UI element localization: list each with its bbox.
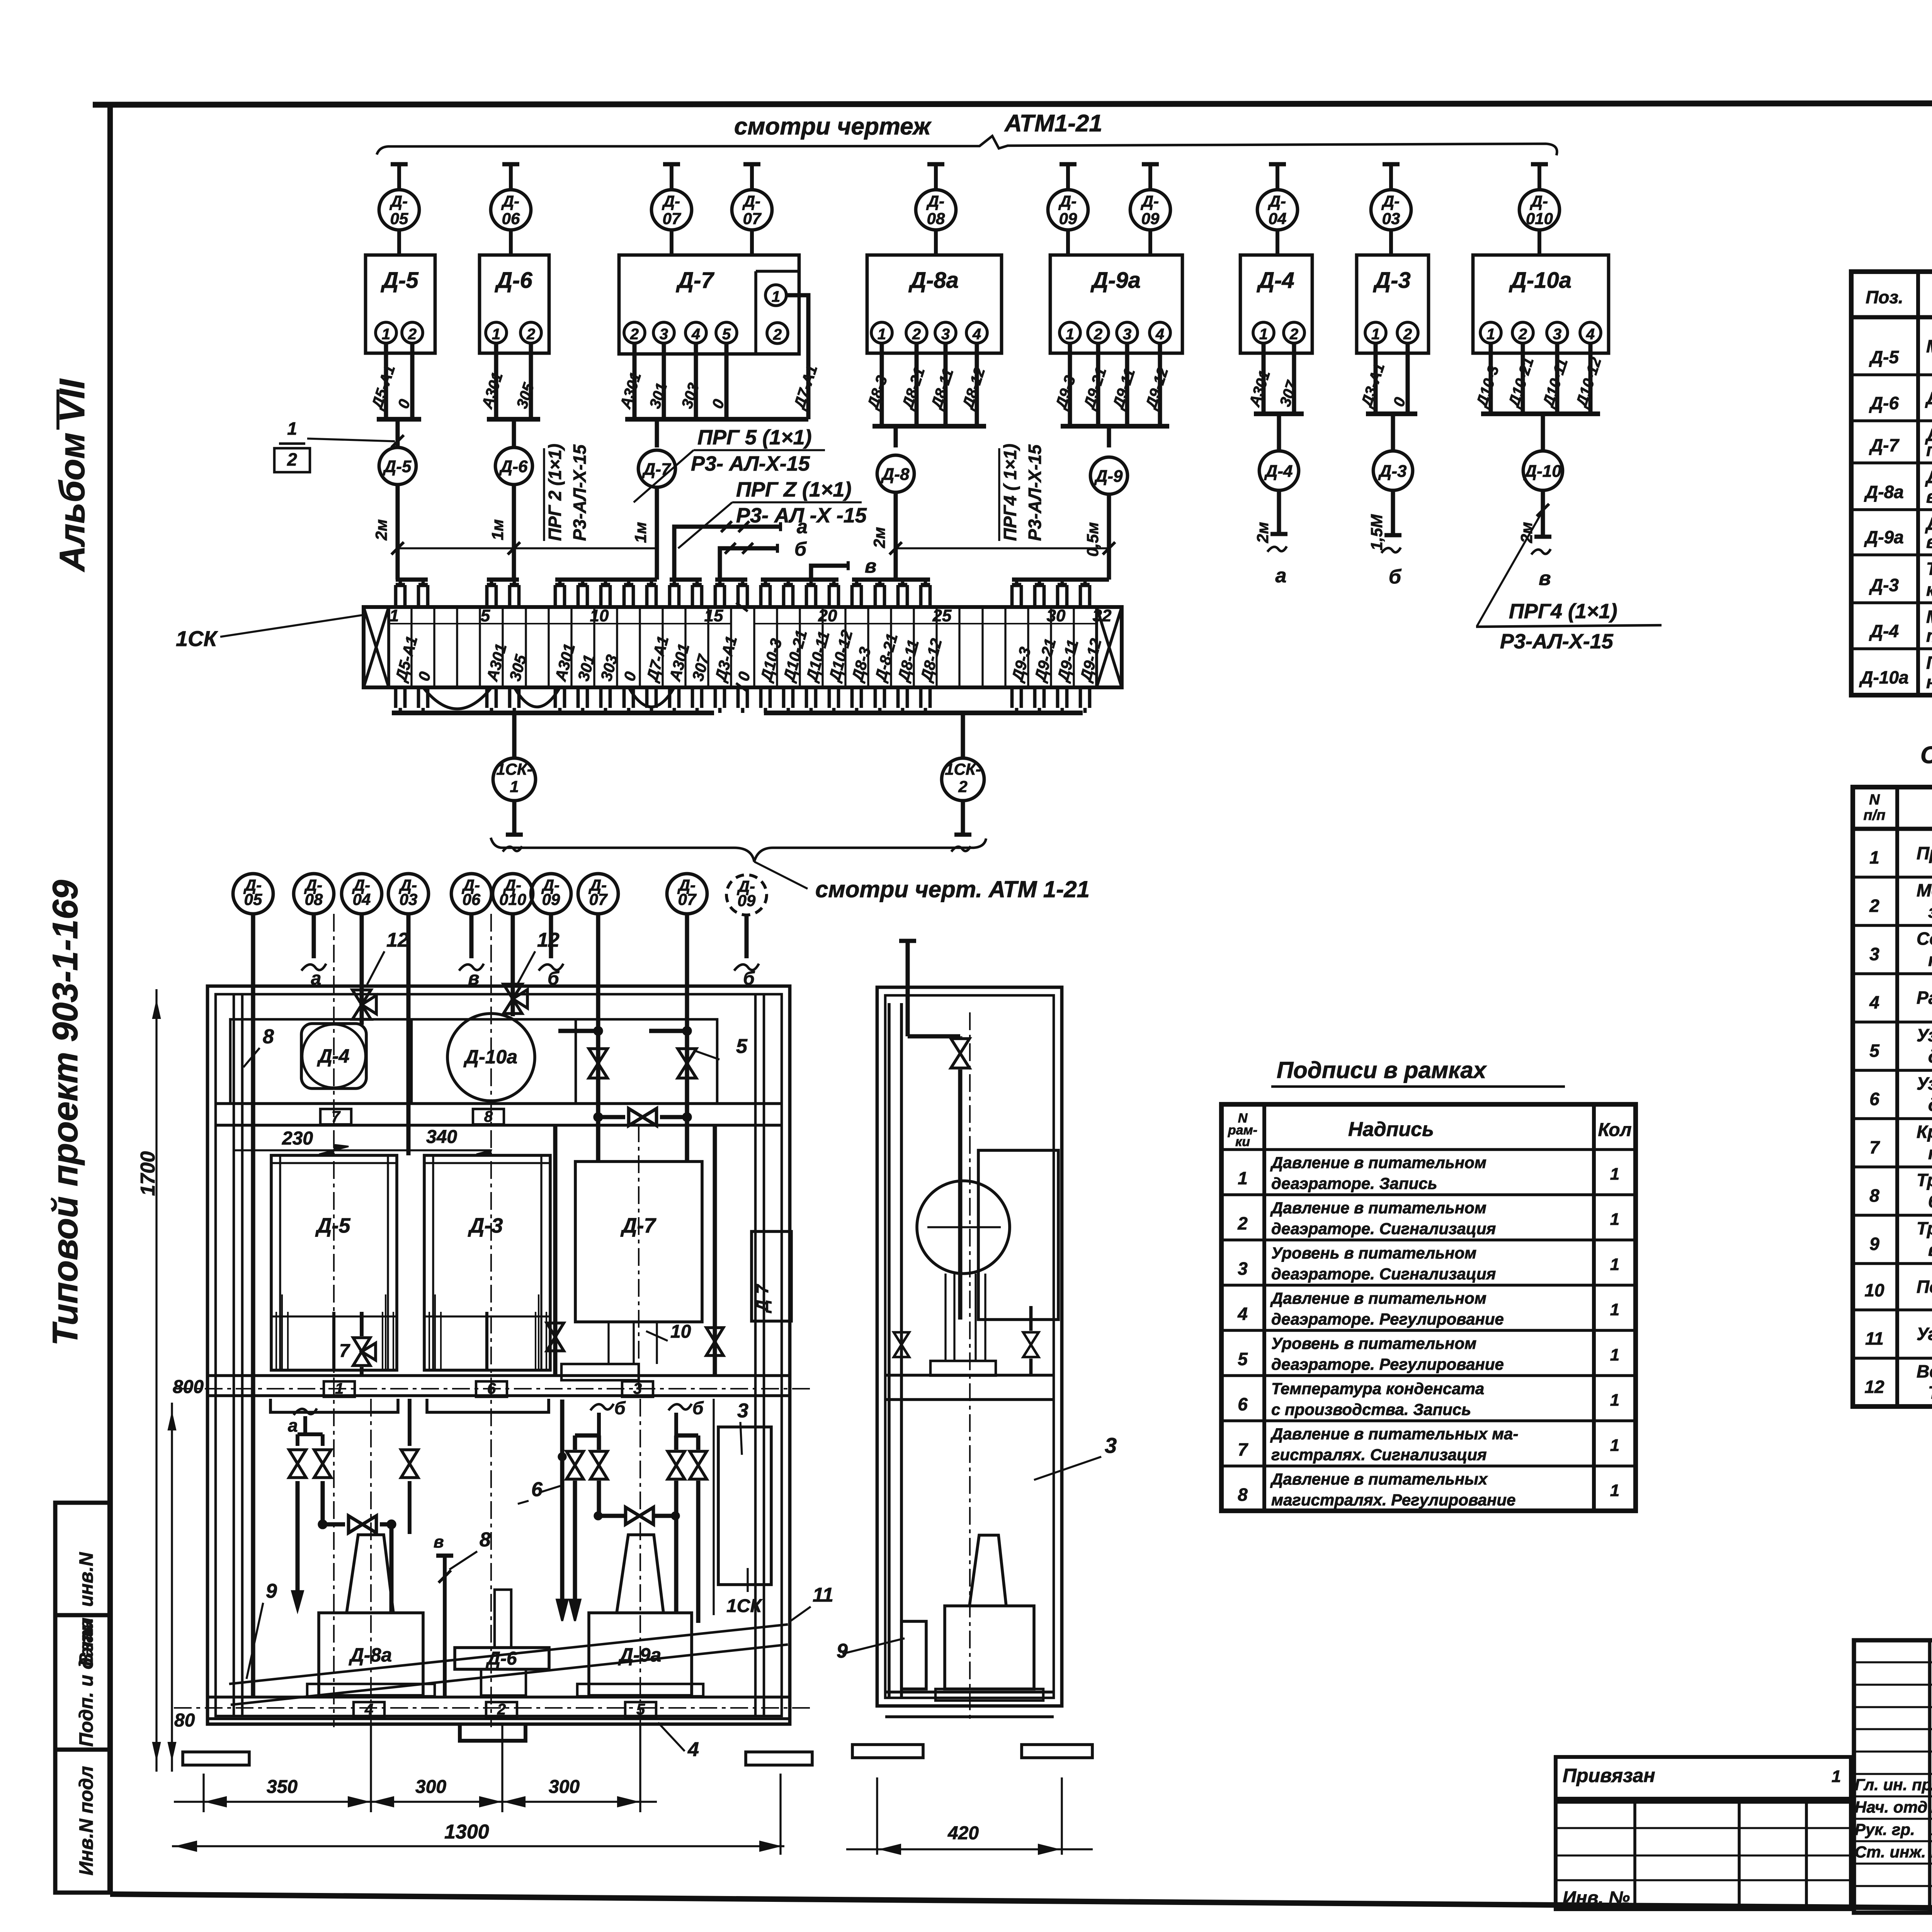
svg-text:Д-6: Д-6 (485, 1648, 517, 1669)
pipe to Д-8а with arrow (296, 1481, 300, 1592)
svg-text:Металлорукав: Металлорукав (1917, 880, 1932, 900)
wire (1158, 343, 1162, 426)
plate 7 (320, 1109, 351, 1124)
comb bar (852, 578, 930, 582)
side view pipe bundle under gauge (944, 1274, 946, 1361)
svg-text:ПРГ4 (1×1): ПРГ4 (1×1) (1509, 600, 1617, 623)
svg-text:Д-9а: Д-9а (1864, 527, 1904, 547)
svg-text:11: 11 (1865, 1328, 1884, 1349)
right lower group stub б 2 (668, 1404, 692, 1410)
svg-text:деаэраторе. Сигнализация: деаэраторе. Сигнализация (1271, 1219, 1496, 1238)
Д-10а terminal 3 (1547, 322, 1568, 343)
strip hook (896, 585, 900, 607)
svg-text:7: 7 (339, 1341, 350, 1361)
svg-text:3: 3 (660, 326, 668, 343)
svg-text:ния (манометр): ния (манометр) (1926, 672, 1932, 692)
svg-text:деаэраторе. Сигнализация: деаэраторе. Сигнализация (1271, 1265, 1496, 1283)
wire Д-06 stub в (469, 914, 474, 958)
Д-7 terminal 2 (624, 322, 645, 343)
svg-text:Манометр самопищущий: Манометр самопищущий (1926, 336, 1932, 356)
device Д-4 front (301, 1024, 366, 1088)
centerline Д-8а column (370, 1399, 372, 1723)
Д-7 terminal 3 (653, 322, 674, 343)
valve on pipe 1 (589, 1049, 607, 1063)
Д-8а trapezoid (347, 1535, 393, 1613)
side small box 9 (901, 1621, 926, 1689)
strip hook (577, 585, 580, 607)
Д-8а terminal 3 (935, 322, 956, 343)
strip hook (828, 585, 831, 607)
wire Д-09 stub б (549, 914, 553, 958)
svg-text:Р3-АЛ-Х-15: Р3-АЛ-Х-15 (570, 444, 590, 541)
svg-text:Д-7: Д-7 (642, 460, 672, 479)
svg-text:12: 12 (386, 929, 409, 951)
sensor circle Д-05 (top row) (397, 164, 401, 190)
svg-text:Преобразователь давле-: Преобразователь давле- (1926, 653, 1932, 673)
svg-text:2: 2 (1403, 326, 1412, 343)
svg-text:Д-10а: Д-10а (1509, 268, 1571, 293)
strip hook (691, 585, 694, 607)
svg-text:Уголок: Уголок (1917, 1324, 1932, 1344)
sensor circle Д-09 (top row) (1066, 164, 1070, 190)
svg-text:Давление в питательном: Давление в питательном (1270, 1199, 1486, 1217)
strip right X box (1097, 607, 1122, 687)
привязан box (1556, 1757, 1851, 1799)
svg-text:а: а (288, 1415, 298, 1435)
svg-text:Д-: Д- (389, 192, 408, 210)
pipe 1807 down (696, 1481, 701, 1623)
Д-4 terminal 2 (1284, 322, 1304, 343)
thin pipe 1847 (713, 1399, 714, 1615)
Д-7 inner sub-box (754, 271, 757, 354)
cable circle Д-9 (1090, 457, 1128, 494)
box Д-5 streak lines (271, 1315, 397, 1317)
svg-text:6: 6 (1238, 1394, 1248, 1414)
svg-text:Д-10а: Д-10а (1859, 667, 1908, 687)
svg-text:Д-: Д- (742, 192, 760, 210)
svg-text:Д-8а: Д-8а (1864, 482, 1904, 502)
sensor circle Д-04 (top row) (1276, 164, 1279, 190)
1СК side box (718, 1427, 771, 1585)
svg-text:11: 11 (813, 1584, 833, 1606)
svg-text:магистралях. Регулирование: магистралях. Регулирование (1271, 1491, 1516, 1509)
wire (1406, 343, 1410, 414)
svg-text:1: 1 (389, 606, 399, 625)
svg-text:ПРГ 2 (1×1): ПРГ 2 (1×1) (545, 444, 565, 541)
svg-text:9: 9 (1869, 1234, 1879, 1254)
svg-text:8: 8 (484, 1108, 493, 1125)
svg-text:1,5М: 1,5М (1367, 514, 1386, 550)
wire from sensor circle to box (1389, 230, 1393, 256)
device Д-10а front (447, 1014, 535, 1101)
svg-text:Рамка для надписи: Рамка для надписи (1917, 988, 1932, 1008)
инв table (1556, 1802, 1851, 1909)
svg-text:2: 2 (773, 326, 782, 343)
svg-text:Д-: Д- (662, 192, 680, 210)
cable to 1СК-2 (961, 713, 965, 758)
Д-9а terminal 3 (1117, 322, 1138, 343)
svg-text:Д-10а: Д-10а (463, 1046, 517, 1068)
svg-text:2: 2 (1094, 326, 1102, 343)
wire (1096, 343, 1100, 426)
svg-text:4: 4 (972, 326, 981, 343)
centerline Д-10а column (490, 914, 492, 1727)
Д-5 terminal 2 (402, 322, 423, 343)
svg-text:04: 04 (353, 890, 371, 908)
svg-text:1: 1 (1610, 1345, 1619, 1364)
Д-6 terminal 2 (520, 322, 541, 343)
svg-text:Д-7: Д-7 (1869, 435, 1900, 455)
Д-9а trapezoid (617, 1535, 663, 1613)
svg-text:07: 07 (743, 209, 762, 228)
svg-text:08: 08 (305, 890, 323, 908)
svg-text:трехходовой: трехходовой (1928, 1143, 1932, 1163)
pipe 1750 to Д-9а (674, 1481, 679, 1613)
cable to strip (894, 492, 898, 580)
svg-text:09: 09 (542, 890, 560, 908)
svg-text:Д-4: Д-4 (1264, 462, 1293, 481)
svg-text:10: 10 (590, 606, 609, 625)
svg-text:АТМ1-21: АТМ1-21 (1004, 110, 1102, 137)
svg-text:дифманометра: дифманометра (1928, 1046, 1932, 1066)
svg-text:Провод гибкий: Провод гибкий (1917, 843, 1932, 863)
wire (1292, 343, 1296, 414)
cable down (512, 419, 516, 447)
svg-text:2: 2 (912, 326, 921, 343)
svg-text:1: 1 (1610, 1165, 1619, 1184)
left margin box Взам.инв.N (55, 1503, 110, 1615)
wire from Д-7 terminal 1 (786, 295, 808, 419)
svg-text:4: 4 (364, 1701, 373, 1718)
svg-text:Д-7: Д-7 (753, 1284, 772, 1313)
svg-text:Д-3: Д-3 (468, 1214, 503, 1237)
drawing frame left border (107, 103, 113, 1894)
bowtie valve at rail (629, 1109, 643, 1126)
pedestal plate under Д-7 (561, 1364, 639, 1380)
Д-6 pedestal (481, 1669, 526, 1696)
cable circle Д-10 (1541, 414, 1545, 451)
cable circle Д-4 (1277, 414, 1281, 451)
svg-text:2: 2 (287, 449, 297, 469)
svg-text:Д-4: Д-4 (1869, 621, 1899, 641)
svg-text:б: б (794, 538, 807, 560)
wire (1489, 343, 1493, 414)
svg-text:дифманометра: дифманометра (1928, 1095, 1932, 1115)
Д-7 terminal 2 (sub) (767, 323, 788, 344)
svg-text:Труба: Труба (1917, 1218, 1932, 1238)
svg-text:Р3-АЛ-Х-15: Р3-АЛ-Х-15 (1025, 444, 1045, 541)
svg-text:12: 12 (537, 929, 560, 951)
sensor circle Д-03 (top row) (1389, 164, 1393, 190)
side view gauge circle (917, 1181, 1010, 1274)
strip hook (714, 585, 717, 607)
Д-8а terminal 1 (871, 322, 892, 343)
instrument box Д-7 (619, 255, 799, 354)
svg-text:1300: 1300 (444, 1821, 489, 1843)
svg-text:2: 2 (497, 1701, 506, 1718)
instrument box Д-9а (1050, 255, 1182, 353)
wire bus (872, 424, 986, 429)
svg-text:2м: 2м (1253, 522, 1272, 543)
grouping line left with hashes (398, 547, 657, 549)
sensor circle Д-07 (front view) (578, 874, 618, 914)
svg-text:Д-6: Д-6 (494, 268, 532, 293)
pipe 1550 to bowtie (597, 1481, 601, 1516)
svg-text:1: 1 (772, 288, 780, 305)
wire (1555, 343, 1560, 414)
wire (915, 343, 919, 426)
Д-6 terminal 1 (486, 322, 507, 343)
svg-text:5: 5 (481, 606, 490, 625)
jumper arcs (423, 687, 492, 709)
svg-text:1: 1 (1610, 1391, 1619, 1410)
svg-text:ки: ки (1235, 1134, 1250, 1149)
left margin box Инв.N подл (55, 1750, 110, 1893)
svg-text:Д-: Д- (1058, 192, 1077, 210)
svg-text:10: 10 (1864, 1280, 1884, 1300)
sensor circle Д-03 (front view) (388, 874, 429, 914)
strip hook (417, 585, 420, 607)
wire from sensor circle to box (1066, 230, 1070, 256)
svg-text:Температура конденсата: Температура конденсата (1271, 1379, 1484, 1398)
pipe to bowtie left (321, 1481, 325, 1524)
wire (694, 343, 698, 419)
svg-text:Д-: Д- (1268, 192, 1286, 210)
svg-text:показывающий сигнализирующий: показывающий сигнализирующий (1926, 440, 1932, 460)
wire bus (1254, 412, 1304, 416)
svg-text:32: 32 (1093, 606, 1112, 625)
strip number band line (389, 623, 730, 624)
left grid rows (1854, 1661, 1932, 1663)
strip hook (782, 585, 786, 607)
wire from sensor circle to box (1537, 230, 1541, 256)
svg-text:04: 04 (1269, 209, 1287, 228)
Д-7 terminal 1 (765, 285, 786, 306)
side feet (852, 1745, 923, 1758)
hook below rail (460, 1724, 526, 1741)
svg-text:Д-5: Д-5 (383, 457, 412, 476)
cable down (396, 419, 400, 447)
svg-text:Инв.N подл: Инв.N подл (75, 1766, 97, 1875)
svg-text:б: б (692, 1398, 704, 1418)
svg-text:Уровень в питательном: Уровень в питательном (1271, 1334, 1476, 1352)
cable to 1СК-1 (512, 713, 516, 758)
svg-text:2: 2 (1237, 1213, 1248, 1233)
wire Д-07 second down (685, 914, 689, 1031)
svg-text:ПРГ 5 (1×1): ПРГ 5 (1×1) (697, 426, 812, 449)
svg-text:Д-8а: Д-8а (349, 1644, 392, 1666)
svg-text:Д-7: Д-7 (675, 268, 714, 293)
terminal strip 1СК (364, 607, 1122, 687)
side view valve right at rail (1023, 1332, 1039, 1345)
svg-text:08: 08 (927, 209, 945, 228)
brace смотри черт (491, 838, 986, 862)
svg-text:Поз.: Поз. (1866, 287, 1903, 307)
svg-text:2м: 2м (870, 527, 888, 548)
plate 2 (486, 1702, 517, 1718)
svg-text:гистралях. Сигнализация: гистралях. Сигнализация (1271, 1446, 1487, 1464)
side view small pedestal plate (930, 1361, 996, 1376)
svg-text:1м: 1м (488, 519, 507, 540)
wire (633, 343, 637, 419)
strip hook (508, 585, 512, 607)
svg-text:06: 06 (502, 209, 520, 228)
strip hook (1033, 585, 1037, 607)
svg-text:5: 5 (1238, 1349, 1248, 1369)
svg-text:1: 1 (1610, 1436, 1619, 1455)
svg-text:6: 6 (1869, 1089, 1879, 1109)
cable end (1391, 490, 1395, 535)
Д-3 terminal 1 (1365, 322, 1386, 343)
connector circle 1СК-2 (942, 758, 984, 801)
side view top wire (906, 941, 910, 995)
svg-text:1м: 1м (631, 522, 650, 543)
strip hook (805, 585, 808, 607)
centerline Д-9а column (639, 1399, 641, 1723)
wire (1521, 343, 1525, 414)
svg-text:80: 80 (174, 1710, 195, 1731)
svg-text:деаэраторе. Регулирование: деаэраторе. Регулирование (1271, 1355, 1504, 1373)
Д-10а terminal 1 (1480, 322, 1501, 343)
sensor circle Д-04 (front view) (342, 874, 382, 914)
svg-text:Рук. гр.: Рук. гр. (1855, 1820, 1915, 1838)
svg-text:800: 800 (173, 1377, 204, 1397)
centerline rail bottom (174, 1707, 811, 1709)
svg-text:кий самопищущий: кий самопищущий (1926, 580, 1932, 600)
right pipe with valve (713, 1125, 717, 1376)
strip hook (1056, 585, 1060, 607)
wire Д-08 stub a (312, 914, 316, 958)
svg-text:Д-: Д- (926, 192, 944, 210)
svg-text:3: 3 (633, 1380, 642, 1397)
svg-text:Р3- АЛ-Х-15: Р3- АЛ-Х-15 (691, 452, 810, 475)
svg-text:ПРГ4 ( 1×1): ПРГ4 ( 1×1) (1000, 444, 1020, 541)
svg-text:Подп. и дата: Подп. и дата (75, 1619, 97, 1747)
svg-text:тактный: тактный (1926, 626, 1932, 646)
svg-text:Ст. инж.: Ст. инж. (1855, 1843, 1926, 1861)
wire bus (1061, 424, 1169, 429)
svg-text:2: 2 (1869, 896, 1879, 916)
strip hook (736, 585, 740, 607)
mid pipe with valve (553, 1125, 558, 1376)
wire Д-07 down (596, 914, 600, 1031)
svg-text:2: 2 (1518, 326, 1527, 343)
box Д-5 front (271, 1155, 397, 1370)
wire (529, 343, 533, 419)
svg-text:Кол: Кол (1598, 1120, 1632, 1140)
three-way valve on Д-04 line (352, 990, 371, 1005)
sensor circle Д-07 (top row) (670, 164, 673, 190)
svg-text:5: 5 (722, 326, 731, 343)
svg-text:Д-3: Д-3 (1372, 268, 1410, 293)
svg-text:1: 1 (1610, 1255, 1619, 1274)
wire bus (487, 417, 540, 422)
instrument box Д-3 (1357, 255, 1429, 353)
cable circle Д-8 (877, 455, 914, 492)
svg-text:Подписи в рамках: Подписи в рамках (1277, 1057, 1487, 1083)
svg-text:1: 1 (1371, 326, 1380, 343)
svg-text:03: 03 (400, 890, 418, 908)
svg-text:6: 6 (531, 1478, 543, 1501)
wire Д-05 pipe long (251, 914, 255, 1697)
svg-text:Д-4: Д-4 (317, 1045, 350, 1067)
svg-text:Д-9: Д-9 (1094, 467, 1123, 486)
strip hook (394, 585, 398, 607)
svg-text:Д-5: Д-5 (1869, 347, 1900, 367)
svg-text:010: 010 (499, 890, 526, 908)
right lower group stub б 1 (590, 1404, 614, 1410)
side view heavy pipe elbow (906, 995, 910, 1036)
svg-text:07: 07 (663, 209, 681, 228)
svg-text:ПРГ Z (1×1): ПРГ Z (1×1) (736, 478, 852, 501)
cable down (655, 419, 659, 447)
strip hook (554, 585, 557, 607)
svg-text:4: 4 (1155, 326, 1164, 343)
Д-8а terminal 2 (906, 322, 927, 343)
svg-text:3: 3 (1105, 1433, 1117, 1458)
svg-text:07: 07 (589, 890, 608, 908)
svg-text:350: 350 (267, 1777, 298, 1797)
svg-text:1СК-: 1СК- (945, 760, 981, 778)
svg-text:010: 010 (1526, 209, 1553, 228)
svg-text:п/п: п/п (1864, 807, 1886, 823)
svg-text:8: 8 (263, 1026, 274, 1048)
pipe 1488 down arrow (573, 1481, 577, 1604)
svg-text:2м: 2м (372, 519, 390, 541)
pipes right upper (596, 1031, 600, 1162)
svg-text:Соединительная: Соединительная (1917, 929, 1932, 949)
valve pair left (289, 1450, 306, 1464)
side view inner box (978, 1150, 1058, 1320)
Д-9а terminal 1 (1060, 322, 1080, 343)
svg-text:4: 4 (1237, 1304, 1248, 1324)
wire (975, 343, 979, 426)
svg-text:Труба стальная: Труба стальная (1917, 1170, 1932, 1190)
cable circle Д-6 (495, 447, 532, 485)
svg-text:деаэраторе. Регулирование: деаэраторе. Регулирование (1271, 1310, 1504, 1328)
wire (944, 343, 948, 426)
svg-text:8: 8 (480, 1529, 491, 1551)
strip hook (919, 585, 923, 607)
svg-text:а: а (1276, 565, 1287, 587)
svg-text:20: 20 (818, 606, 837, 625)
sensor circle Д-09 (top row) (1148, 164, 1152, 190)
Д-8а terminal 4 (966, 322, 987, 343)
svg-text:4: 4 (1869, 992, 1879, 1012)
svg-text:N: N (1869, 792, 1880, 808)
bowtie valve left lower (349, 1516, 362, 1533)
svg-text:1: 1 (382, 326, 390, 343)
side view mid rail (885, 1374, 1054, 1377)
stub в lower (443, 1556, 447, 1697)
comb bar (670, 578, 702, 582)
Д-8а pedestal (319, 1613, 423, 1696)
svg-text:3: 3 (1553, 326, 1561, 343)
wire from sensor circle to box (670, 230, 673, 256)
wire (1125, 343, 1129, 426)
strip hook (850, 585, 854, 607)
side view centerline (969, 1012, 971, 1723)
strip hook (1079, 585, 1082, 607)
svg-text:смотри чертеж: смотри чертеж (734, 113, 932, 140)
wire Д-03 down (406, 914, 411, 1155)
svg-text:Манометр электракон-: Манометр электракон- (1926, 607, 1932, 627)
Д-10а terminal 4 (1580, 322, 1601, 343)
straight pipe with down arrow (560, 1400, 565, 1604)
title block outer (1854, 1640, 1932, 1913)
svg-text:Надпись: Надпись (1348, 1118, 1434, 1141)
svg-text:1: 1 (1238, 1168, 1248, 1188)
